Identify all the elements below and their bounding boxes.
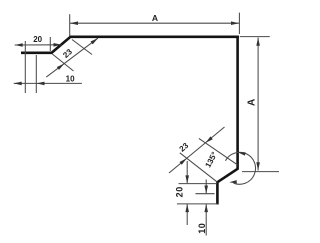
svg-text:10: 10 (197, 223, 207, 234)
svg-text:A: A (152, 13, 158, 23)
svg-text:10: 10 (66, 74, 75, 83)
svg-text:A: A (247, 99, 258, 106)
svg-text:20: 20 (174, 186, 184, 197)
svg-text:20: 20 (33, 35, 42, 44)
svg-text:135°: 135° (203, 150, 219, 169)
svg-text:23: 23 (178, 141, 191, 154)
